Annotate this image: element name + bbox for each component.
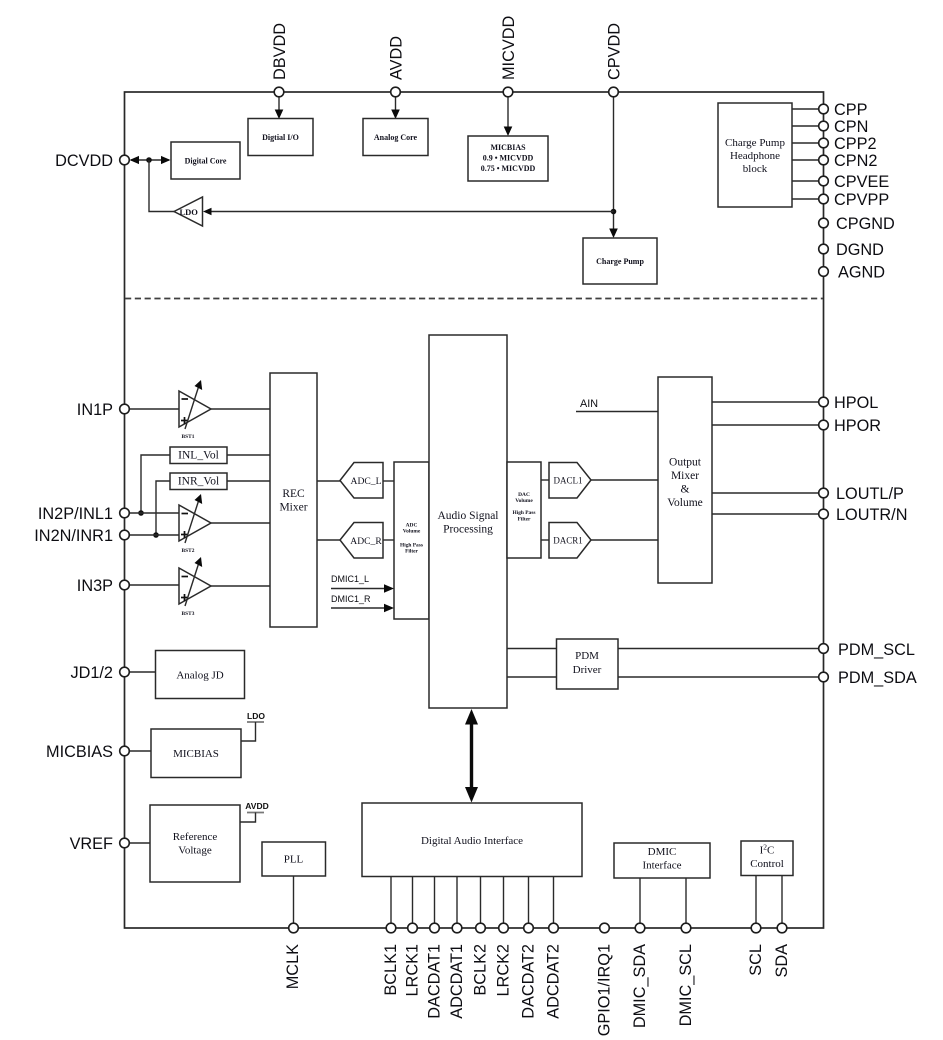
pin CPVEE — [819, 176, 829, 186]
svg-text:DMIC_SCL: DMIC_SCL — [677, 944, 695, 1026]
wire CPVDD node to LDO input — [211, 211, 614, 213]
svg-text:HPOL: HPOL — [834, 394, 878, 412]
svg-text:LRCK1: LRCK1 — [404, 944, 422, 997]
svg-text:DCVDD: DCVDD — [55, 152, 113, 170]
svg-text:BST1: BST1 — [182, 434, 195, 440]
net AVDD supply tap — [240, 801, 269, 822]
svg-text:Mixer: Mixer — [279, 502, 307, 514]
pin BCLK1 — [386, 923, 396, 933]
block MICBIAS (top) — [468, 136, 548, 181]
block Digital Core — [171, 142, 240, 179]
wire ASP to PDM Driver (SCL) — [507, 648, 557, 650]
svg-text:Volume: Volume — [403, 529, 421, 535]
wire DBVDD to Digital I/O — [278, 97, 280, 112]
wire DAC volume to DACR1 — [541, 539, 549, 541]
junction DCVDD node — [146, 157, 152, 163]
svg-text:Driver: Driver — [573, 664, 602, 676]
svg-text:BCLK2: BCLK2 — [472, 944, 490, 996]
svg-text:PLL: PLL — [284, 854, 304, 866]
wire VREF to Reference Voltage — [129, 842, 150, 844]
svg-text:ADCDAT2: ADCDAT2 — [545, 944, 563, 1019]
pin JD1/2 — [120, 667, 130, 677]
svg-text:0.75 • MICVDD: 0.75 • MICVDD — [481, 164, 536, 173]
svg-text:LDO: LDO — [247, 711, 265, 721]
pin MCLK — [289, 923, 299, 933]
wire ASP to Digital Audio Interface (bidirectional) — [465, 709, 478, 803]
svg-text:DACL1: DACL1 — [554, 476, 583, 486]
pin IN1P — [120, 404, 130, 414]
svg-text:CPVPP: CPVPP — [834, 191, 889, 209]
wire DACL1 to Output Mixer — [591, 479, 658, 481]
block REC Mixer — [270, 373, 317, 627]
svg-text:Voltage: Voltage — [178, 845, 212, 857]
pin VREF — [120, 838, 130, 848]
svg-text:LDO: LDO — [180, 207, 199, 217]
wire DMIC1_R into ADC volume — [331, 607, 385, 609]
svg-text:Audio Signal: Audio Signal — [437, 510, 498, 522]
pin IN2P/INL1 — [120, 508, 130, 518]
block ADC Volume / High Pass Filter — [394, 462, 429, 619]
svg-text:Digtial I/O: Digtial I/O — [262, 133, 299, 142]
svg-text:Charge Pump: Charge Pump — [596, 257, 644, 266]
svg-text:CPP: CPP — [834, 101, 867, 119]
block DAC Volume / High Pass Filter — [507, 462, 541, 558]
wire INR_Vol to REC Mixer — [227, 480, 270, 482]
block Audio Signal Processing — [429, 335, 507, 708]
block Output Mixer & Volume — [658, 377, 712, 583]
wire DMIC1_L into ADC volume — [331, 588, 385, 590]
wire REC Mixer to ADC_R — [317, 539, 341, 541]
wire CPVDD down to Charge Pump — [613, 97, 615, 231]
wire Output Mixer to HPOR — [712, 424, 820, 426]
svg-text:IN3P: IN3P — [77, 577, 113, 595]
svg-text:HPOR: HPOR — [834, 417, 881, 435]
pin ADCDAT1 — [452, 923, 462, 933]
svg-text:DMIC1_R: DMIC1_R — [331, 594, 371, 604]
block PDM Driver — [557, 639, 619, 689]
pin DMIC_SCL — [681, 923, 691, 933]
svg-text:DMIC: DMIC — [648, 846, 677, 858]
junction CPVDD/LDO feed — [611, 209, 617, 215]
svg-text:DGND: DGND — [836, 241, 884, 259]
svg-text:IN2P/INL1: IN2P/INL1 — [38, 505, 113, 523]
svg-text:DACDAT2: DACDAT2 — [520, 944, 538, 1019]
svg-text:IN1P: IN1P — [77, 401, 113, 419]
amplifier BST3 — [179, 557, 211, 617]
svg-text:Digital Audio Interface: Digital Audio Interface — [421, 835, 523, 847]
pin PDM_SCL — [819, 644, 829, 654]
pin SCL — [751, 923, 761, 933]
svg-text:ADC_R: ADC_R — [350, 536, 382, 547]
node ADC_R — [340, 523, 383, 559]
svg-text:CPVDD: CPVDD — [606, 23, 624, 80]
svg-text:Mixer: Mixer — [671, 470, 699, 482]
block MICBIAS (analog) — [151, 729, 241, 778]
svg-text:PDM_SCL: PDM_SCL — [838, 641, 915, 659]
svg-text:0.9 • MICVDD: 0.9 • MICVDD — [483, 154, 534, 163]
pin CPVDD — [609, 87, 619, 97]
pin DGND — [819, 244, 829, 254]
svg-text:MCLK: MCLK — [284, 944, 302, 989]
net LDO supply tap — [241, 711, 265, 741]
svg-text:I2C: I2C — [760, 843, 775, 857]
svg-text:DACDAT1: DACDAT1 — [426, 944, 444, 1019]
svg-text:Filter: Filter — [405, 549, 418, 555]
svg-text:Control: Control — [750, 858, 784, 870]
wire INR_Vol tap from IN2N — [156, 481, 170, 535]
node ADC_L — [340, 463, 383, 499]
svg-text:VREF: VREF — [70, 835, 113, 853]
block Digital Audio Interface — [362, 803, 582, 877]
pin CPN2 — [819, 155, 829, 165]
pin BCLK2 — [476, 923, 486, 933]
svg-text:DBVDD: DBVDD — [271, 23, 289, 80]
svg-text:CPGND: CPGND — [836, 215, 895, 233]
svg-text:ADC_L: ADC_L — [351, 476, 382, 487]
wire ADC_L to ADC volume — [383, 480, 394, 482]
wire DCVDD node to LDO output — [149, 160, 175, 212]
svg-text:DMIC1_L: DMIC1_L — [331, 574, 369, 584]
pin HPOR — [819, 420, 829, 430]
svg-text:Charge Pump: Charge Pump — [725, 137, 785, 149]
wire IN3P to BST3 — [129, 584, 179, 586]
block Charge Pump Headphone — [718, 103, 792, 207]
svg-text:Analog JD: Analog JD — [176, 670, 223, 682]
block DMIC Interface — [614, 843, 710, 878]
wire JD1/2 to Analog JD — [129, 671, 156, 673]
wire DACR1 to Output Mixer — [591, 539, 658, 541]
wire IN1P to BST1 — [129, 408, 179, 410]
wire AVDD to Analog Core — [395, 97, 397, 112]
svg-text:DACR1: DACR1 — [553, 536, 583, 546]
wire PDM Driver to PDM_SDA — [618, 676, 820, 678]
wire I2C Control to SCL — [755, 876, 757, 929]
svg-text:SCL: SCL — [747, 944, 765, 976]
junction IN2P tap — [138, 510, 144, 516]
pin AGND — [819, 267, 829, 277]
svg-text:CPVEE: CPVEE — [834, 173, 889, 191]
svg-text:PDM_SDA: PDM_SDA — [838, 669, 917, 687]
pin HPOL — [819, 397, 829, 407]
svg-text:GPIO1/IRQ1: GPIO1/IRQ1 — [596, 944, 614, 1036]
svg-text:PDM: PDM — [575, 650, 599, 662]
chip outer boundary — [125, 92, 824, 928]
wire Output Mixer to LOUTR/N — [712, 513, 820, 515]
pin IN2N/INR1 — [120, 530, 130, 540]
node DACL1 — [549, 463, 591, 499]
wire IN2N to BST2 — [129, 534, 179, 536]
junction IN2N tap — [153, 532, 159, 538]
wire DMIC Interface to DMIC_SDA — [639, 878, 641, 928]
pin SDA — [777, 923, 787, 933]
svg-text:AGND: AGND — [838, 264, 885, 282]
pin LOUTR/N — [819, 509, 829, 519]
amplifier BST1 — [179, 380, 211, 440]
wire BST1 to REC Mixer — [211, 408, 270, 410]
svg-text:AVDD: AVDD — [388, 36, 406, 80]
block Charge Pump — [583, 238, 657, 284]
block Analog JD — [156, 651, 245, 699]
pin PDM_SDA — [819, 672, 829, 682]
block Reference Voltage — [150, 805, 240, 882]
wire AIN to Output Mixer — [576, 411, 658, 413]
op-amp LDO — [174, 197, 203, 226]
wire Output Mixer to HPOL — [712, 401, 820, 403]
wire DMIC Interface to DMIC_SCL — [685, 878, 687, 928]
pin LRCK1 — [408, 923, 418, 933]
pin IN3P — [120, 580, 130, 590]
svg-text:BST2: BST2 — [182, 548, 195, 554]
svg-text:Reference: Reference — [173, 831, 218, 843]
svg-text:&: & — [681, 484, 690, 496]
block I2C Control — [741, 841, 793, 876]
wires Digital Audio Interface to bottom pins — [391, 877, 554, 929]
svg-text:AVDD: AVDD — [245, 801, 268, 811]
pin GPIO1/IRQ1 — [600, 923, 610, 933]
block PLL — [262, 842, 326, 876]
svg-text:Analog Core: Analog Core — [374, 133, 418, 142]
wire BST3 to REC Mixer — [211, 585, 270, 587]
wire REC Mixer to ADC_L — [317, 480, 341, 482]
wire I2C Control to SDA — [781, 876, 783, 929]
svg-text:Processing: Processing — [443, 524, 493, 536]
wire MICBIAS pin to block — [129, 750, 151, 752]
wire DAC volume to DACL1 — [541, 479, 549, 481]
svg-text:Output: Output — [669, 457, 702, 469]
pin DCVDD — [120, 155, 130, 165]
block INL_Vol — [170, 447, 227, 464]
pin CPGND — [819, 218, 829, 228]
svg-text:ADCDAT1: ADCDAT1 — [448, 944, 466, 1019]
pin ADCDAT2 — [549, 923, 559, 933]
svg-text:Filter: Filter — [518, 517, 531, 523]
wire Output Mixer to LOUTL/P — [712, 492, 820, 494]
wire INL_Vol to REC Mixer — [227, 454, 270, 456]
pin LOUTL/P — [819, 488, 829, 498]
wire MICVDD to MICBIAS block — [507, 97, 509, 129]
wire PDM Driver to PDM_SCL — [618, 648, 820, 650]
pin CPP — [819, 104, 829, 114]
svg-text:Headphone: Headphone — [730, 150, 780, 162]
svg-text:LRCK2: LRCK2 — [495, 944, 513, 997]
wire IN2P to BST2 — [129, 512, 179, 514]
svg-text:High Pass: High Pass — [513, 510, 536, 516]
wire ASP to PDM Driver (SDA) — [507, 676, 557, 678]
digital/analog section divider (dashed) — [125, 298, 823, 300]
svg-text:JD1/2: JD1/2 — [70, 664, 113, 682]
wire ADC_R to ADC volume — [383, 539, 394, 541]
svg-text:Volume: Volume — [515, 498, 533, 504]
svg-text:LOUTR/N: LOUTR/N — [836, 506, 907, 524]
amplifier BST2 — [179, 494, 211, 554]
svg-text:LOUTL/P: LOUTL/P — [836, 485, 904, 503]
svg-text:BCLK1: BCLK1 — [382, 944, 400, 996]
svg-text:DMIC_SDA: DMIC_SDA — [631, 944, 649, 1028]
svg-text:BST3: BST3 — [182, 611, 195, 617]
pin DBVDD — [274, 87, 284, 97]
pin AVDD — [391, 87, 401, 97]
pin DACDAT2 — [524, 923, 534, 933]
svg-text:SDA: SDA — [773, 944, 791, 978]
block Digtial I/O — [248, 119, 313, 156]
svg-text:AIN: AIN — [580, 398, 598, 410]
pin CPVPP — [819, 194, 829, 204]
svg-text:IN2N/INR1: IN2N/INR1 — [34, 527, 113, 545]
pin DMIC_SDA — [635, 923, 645, 933]
wire DCVDD to Digital Core (double arrow) — [131, 159, 169, 161]
wire INL_Vol tap from IN2P — [141, 455, 170, 513]
svg-text:CPN: CPN — [834, 118, 868, 136]
pin CPN — [819, 121, 829, 131]
pin LRCK2 — [499, 923, 509, 933]
svg-text:MICVDD: MICVDD — [500, 16, 518, 80]
svg-text:MICBIAS: MICBIAS — [490, 143, 526, 152]
pin DACDAT1 — [430, 923, 440, 933]
node DACR1 — [549, 523, 591, 559]
svg-text:block: block — [743, 163, 768, 175]
svg-text:REC: REC — [282, 488, 305, 500]
svg-text:INL_Vol: INL_Vol — [178, 450, 219, 462]
block Analog Core — [363, 119, 428, 156]
svg-text:Digital Core: Digital Core — [185, 157, 227, 166]
wire PLL to MCLK — [293, 876, 295, 928]
block INR_Vol — [170, 473, 227, 490]
svg-text:CPP2: CPP2 — [834, 135, 877, 153]
svg-text:Interface: Interface — [642, 860, 681, 872]
svg-text:INR_Vol: INR_Vol — [178, 476, 219, 488]
svg-text:Volume: Volume — [667, 497, 703, 509]
pin MICBIAS — [120, 746, 130, 756]
pin MICVDD — [503, 87, 513, 97]
pin CPP2 — [819, 138, 829, 148]
svg-text:MICBIAS: MICBIAS — [173, 748, 219, 760]
wire BST2 to REC Mixer — [211, 522, 270, 524]
svg-text:MICBIAS: MICBIAS — [46, 743, 113, 761]
wires Charge Pump Headphone to CP pins — [792, 109, 820, 199]
svg-text:CPN2: CPN2 — [834, 152, 877, 170]
